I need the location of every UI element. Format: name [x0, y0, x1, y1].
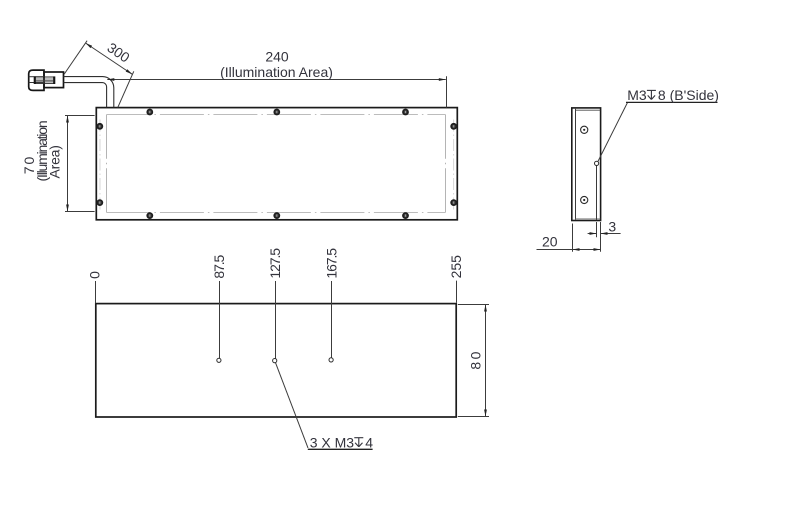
dimension 70: arrowheads: [66, 116, 69, 123]
svg-text:(Illumination Area): (Illumination Area): [220, 64, 333, 80]
svg-text:255: 255: [448, 255, 464, 279]
svg-text:167.5: 167.5: [323, 248, 339, 279]
screw S9 (right upper): [450, 123, 457, 130]
front view: right screw column centerline: [453, 120, 455, 210]
screw S7 (left upper): [96, 123, 103, 130]
tapped hole T3: [329, 358, 333, 362]
dimension 20: arrowheads: [573, 248, 580, 251]
dimension 300: value text: [104, 39, 132, 65]
dimension 20: extension lines: [572, 224, 574, 252]
side view: inner edge line bottom: [576, 218, 601, 220]
hole position label 87.5: leader line: [219, 281, 221, 358]
dimension 300: dimension line: [86, 43, 133, 74]
side view: step edge line below side hole: [596, 165, 598, 220]
hole position label 255: leader line: [456, 281, 458, 303]
side view: M3 side hole: [595, 161, 599, 165]
svg-text:3: 3: [608, 219, 616, 235]
screw S1 (top left): [146, 109, 153, 116]
connector pin block: [35, 76, 55, 84]
svg-text:3 X M3: 3 X M3: [310, 434, 355, 450]
dimension 240: right extension line: [446, 76, 448, 107]
screw S8 (left lower): [96, 199, 103, 206]
screw S4 (bottom left): [146, 212, 153, 219]
dimension 300: arrowheads: [86, 43, 93, 48]
screw S3 (top right): [402, 109, 409, 116]
dimension 80: value text: [468, 349, 484, 370]
side view: plate outline: [572, 108, 601, 221]
dimension 70: note text line 2: [47, 145, 63, 178]
connector J1 body: [44, 72, 64, 88]
svg-text:4: 4: [365, 434, 373, 450]
cable wire W1 inner line: [64, 83, 107, 108]
front view: left screw column centerline: [99, 120, 101, 210]
svg-text:240: 240: [265, 48, 289, 64]
connector latch lines across cap: [29, 76, 44, 78]
hole position label 167.5: leader line: [331, 281, 333, 358]
tapped hole T2: [273, 359, 277, 363]
side view: inner edge line left: [575, 109, 577, 220]
dimension 70: extension lines: [65, 115, 95, 117]
dimension 70: value text: [21, 155, 37, 175]
cable connector J1 housing cap: [29, 70, 44, 90]
dimension 70: note text line 1: [34, 121, 50, 181]
side view: hole H1: [581, 126, 588, 133]
svg-text:20: 20: [542, 233, 558, 249]
svg-text:127.5: 127.5: [267, 248, 283, 279]
hole position label 87.5: [211, 254, 227, 278]
dimension 20: dimension line: [537, 249, 601, 251]
hole position label 0: leader line: [95, 281, 97, 303]
dimension 240: arrowheads: [107, 78, 114, 81]
side view: hole H2: [581, 196, 588, 203]
connector pin lines: [36, 79, 53, 82]
callout M3 depth 8: depth symbol: [647, 90, 656, 99]
dimension 300: extension line at panel: [118, 71, 134, 107]
front view: panel outer outline: [96, 108, 457, 220]
hole position label 167.5: [323, 248, 339, 279]
callout 3X M3 depth 4: depth symbol: [354, 438, 363, 447]
dimension 80: extension lines: [458, 304, 489, 306]
dimension 80: dimension line: [485, 305, 487, 417]
screw S5 (bottom center): [273, 212, 280, 219]
svg-text:M3: M3: [627, 87, 647, 103]
svg-text:8 (B'Side): 8 (B'Side): [658, 87, 719, 103]
hole position label 127.5: leader line: [275, 281, 277, 359]
dimension 3: extension line: [596, 222, 598, 237]
side view: inner edge line top: [576, 109, 601, 111]
dimension 70: dimension line: [67, 116, 69, 212]
svg-text:87.5: 87.5: [211, 254, 227, 278]
dimension 240: dimension line: [107, 79, 446, 81]
dimension 300: extension line at connector: [64, 41, 87, 74]
tapped hole T1: [217, 358, 221, 362]
hole position label 255: [448, 255, 464, 279]
callout M3 depth 8: underline: [626, 101, 718, 103]
dimension 80: arrowheads: [484, 305, 487, 312]
screw S2 (top center): [273, 109, 280, 116]
bottom view: panel outline: [96, 304, 456, 417]
callout M3 depth 8: leader line: [598, 103, 628, 162]
cable wire W1 outer line: [64, 77, 114, 108]
svg-text:0: 0: [87, 271, 103, 279]
screw S6 (bottom right): [402, 212, 409, 219]
hole position label 0: [87, 271, 103, 279]
callout 3X M3 depth 4: underline: [308, 448, 373, 450]
front view: illumination area boundary (dash-dot): [106, 115, 445, 213]
svg-text:80: 80: [468, 349, 484, 370]
svg-text:Area): Area): [47, 145, 63, 178]
hole position label 127.5: [267, 248, 283, 279]
dimension 3: dimension line with outside arrows: [588, 233, 597, 235]
screw S10 (right lower): [450, 199, 457, 206]
callout 3X M3 depth 4: leader line: [276, 363, 309, 448]
